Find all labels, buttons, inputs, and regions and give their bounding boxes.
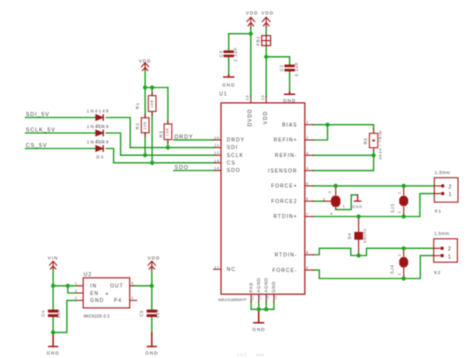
svg-text:20: 20 bbox=[260, 95, 265, 101]
svg-text:5: 5 bbox=[131, 282, 134, 286]
svg-text:2.2uF: 2.2uF bbox=[233, 47, 238, 62]
svg-text:PAD: PAD bbox=[248, 282, 253, 293]
svg-text:GND: GND bbox=[145, 351, 158, 356]
svg-text:1uF: 1uF bbox=[56, 308, 61, 318]
svg-text:SCLK: SCLK bbox=[227, 153, 244, 159]
svg-text:1: 1 bbox=[343, 205, 346, 209]
svg-text:SDO: SDO bbox=[227, 168, 241, 174]
svg-text:DRDY: DRDY bbox=[175, 135, 194, 141]
svg-text:1: 1 bbox=[397, 273, 401, 276]
svg-text:VDD: VDD bbox=[263, 111, 269, 125]
svg-text:U1: U1 bbox=[219, 91, 227, 97]
svg-text:3: 3 bbox=[75, 289, 78, 293]
svg-text:1: 1 bbox=[75, 282, 78, 286]
svg-text:SDO: SDO bbox=[175, 165, 189, 171]
svg-text:21: 21 bbox=[251, 295, 255, 300]
svg-text:1uF: 1uF bbox=[155, 308, 160, 318]
svg-text:BIAS: BIAS bbox=[282, 122, 297, 128]
svg-text:10: 10 bbox=[214, 135, 220, 140]
svg-text:CS: CS bbox=[227, 161, 236, 167]
svg-text:MIC5225-3.3: MIC5225-3.3 bbox=[84, 314, 110, 319]
svg-text:P4: P4 bbox=[114, 298, 122, 304]
svg-text:5: 5 bbox=[306, 181, 309, 186]
svg-text:R6: R6 bbox=[363, 137, 368, 144]
svg-text:RTDIN+: RTDIN+ bbox=[273, 214, 297, 220]
svg-text:C3: C3 bbox=[218, 50, 223, 57]
svg-text:1,5mm: 1,5mm bbox=[435, 170, 450, 175]
svg-text:GND: GND bbox=[352, 205, 363, 209]
svg-text:2: 2 bbox=[75, 296, 78, 300]
svg-text:NC: NC bbox=[227, 267, 236, 273]
svg-text:VDD: VDD bbox=[148, 256, 161, 261]
svg-text:GND: GND bbox=[90, 298, 104, 304]
svg-text:VDD: VDD bbox=[261, 11, 274, 16]
svg-text:GND: GND bbox=[252, 327, 265, 332]
svg-text:SD05C: SD05C bbox=[363, 228, 367, 243]
svg-text:13: 13 bbox=[214, 158, 220, 163]
svg-text:REFIN-: REFIN- bbox=[275, 153, 298, 159]
svg-text:1: 1 bbox=[448, 254, 452, 260]
svg-text:D4: D4 bbox=[347, 232, 352, 239]
svg-text:1.0.0: 1.0.0 bbox=[237, 353, 247, 357]
svg-text:2: 2 bbox=[397, 191, 401, 194]
svg-text:10K: 10K bbox=[143, 121, 147, 130]
svg-text:17: 17 bbox=[214, 264, 220, 269]
svg-text:14: 14 bbox=[214, 166, 220, 171]
svg-text:1: 1 bbox=[449, 192, 453, 198]
svg-text:4: 4 bbox=[131, 296, 134, 300]
svg-text:MAX31865ATP: MAX31865ATP bbox=[218, 297, 246, 302]
svg-text:C4: C4 bbox=[40, 310, 45, 317]
svg-text:OUT: OUT bbox=[110, 284, 124, 290]
svg-text:10: 10 bbox=[273, 295, 277, 300]
svg-text:DRDY: DRDY bbox=[227, 138, 245, 144]
svg-text:2: 2 bbox=[448, 247, 452, 253]
svg-text:GND: GND bbox=[271, 281, 276, 293]
svg-text:R3: R3 bbox=[159, 131, 164, 138]
svg-text:2: 2 bbox=[397, 254, 401, 257]
svg-text:+: + bbox=[105, 291, 109, 297]
svg-text:19: 19 bbox=[245, 95, 250, 101]
svg-text:3: 3 bbox=[306, 150, 309, 155]
svg-text:GND: GND bbox=[222, 83, 235, 88]
svg-text:8: 8 bbox=[306, 250, 309, 255]
svg-text:VIN: VIN bbox=[48, 256, 59, 261]
svg-text:1: 1 bbox=[397, 211, 401, 214]
svg-text:D3: D3 bbox=[96, 154, 104, 159]
svg-text:4: 4 bbox=[330, 212, 333, 216]
svg-text:12: 12 bbox=[214, 150, 220, 155]
svg-text:VDD: VDD bbox=[139, 58, 152, 63]
svg-text:R2: R2 bbox=[135, 123, 140, 130]
svg-text:RTDIN-: RTDIN- bbox=[275, 253, 298, 259]
svg-text:6: 6 bbox=[306, 196, 309, 201]
svg-text:FORCE+: FORCE+ bbox=[271, 184, 297, 190]
svg-text:7: 7 bbox=[306, 212, 309, 217]
svg-text:2: 2 bbox=[449, 184, 453, 190]
svg-text:SJ3: SJ3 bbox=[390, 203, 395, 213]
svg-text:10K: 10K bbox=[166, 127, 170, 136]
svg-text:15: 15 bbox=[258, 295, 262, 300]
svg-text:R1: R1 bbox=[135, 102, 140, 109]
svg-text:GND: GND bbox=[283, 98, 296, 103]
svg-text:11: 11 bbox=[214, 143, 220, 148]
svg-text:FORCE2: FORCE2 bbox=[271, 199, 297, 205]
svg-text:FB1: FB1 bbox=[256, 36, 261, 46]
svg-text:AGND: AGND bbox=[264, 278, 269, 293]
svg-text:SDI: SDI bbox=[227, 145, 238, 151]
svg-text:FORCE-: FORCE- bbox=[272, 268, 297, 274]
svg-text:ISENSOR: ISENSOR bbox=[268, 168, 298, 174]
svg-text:2: 2 bbox=[306, 135, 309, 140]
svg-text:X2: X2 bbox=[434, 270, 441, 275]
svg-text:0.1uF: 0.1uF bbox=[294, 62, 299, 77]
svg-text:D1: D1 bbox=[96, 123, 104, 128]
svg-text:1N4148: 1N4148 bbox=[87, 108, 110, 113]
svg-text:GND: GND bbox=[46, 351, 59, 356]
svg-text:16: 16 bbox=[266, 295, 270, 300]
svg-text:D2: D2 bbox=[96, 139, 104, 144]
svg-text:VDD: VDD bbox=[246, 11, 259, 16]
svg-text:3: 3 bbox=[328, 191, 332, 194]
svg-text:rev0: rev0 bbox=[256, 353, 264, 357]
svg-text:2: 2 bbox=[323, 197, 326, 201]
svg-text:4K99 / TRIM: 4K99 / TRIM bbox=[379, 130, 383, 159]
svg-text:REFIN+: REFIN+ bbox=[274, 138, 298, 144]
svg-text:IN: IN bbox=[90, 284, 97, 290]
svg-text:C2: C2 bbox=[279, 64, 284, 71]
svg-text:9: 9 bbox=[306, 265, 309, 270]
svg-text:EN: EN bbox=[90, 291, 99, 297]
svg-text:SJ4: SJ4 bbox=[390, 264, 395, 274]
svg-text:SCLK_5V: SCLK_5V bbox=[26, 128, 56, 134]
svg-text:C5: C5 bbox=[139, 310, 144, 317]
svg-text:X1: X1 bbox=[435, 209, 442, 214]
svg-text:1: 1 bbox=[306, 120, 309, 125]
svg-text:CS_5V: CS_5V bbox=[26, 143, 48, 149]
svg-text:4: 4 bbox=[306, 166, 309, 171]
svg-text:AGND: AGND bbox=[256, 278, 261, 293]
svg-text:DVDD: DVDD bbox=[248, 108, 254, 126]
svg-text:10K: 10K bbox=[150, 99, 154, 108]
svg-text:1,5mm: 1,5mm bbox=[434, 231, 449, 236]
svg-text:U2: U2 bbox=[84, 272, 92, 278]
svg-text:SDI_5V: SDI_5V bbox=[26, 112, 50, 118]
